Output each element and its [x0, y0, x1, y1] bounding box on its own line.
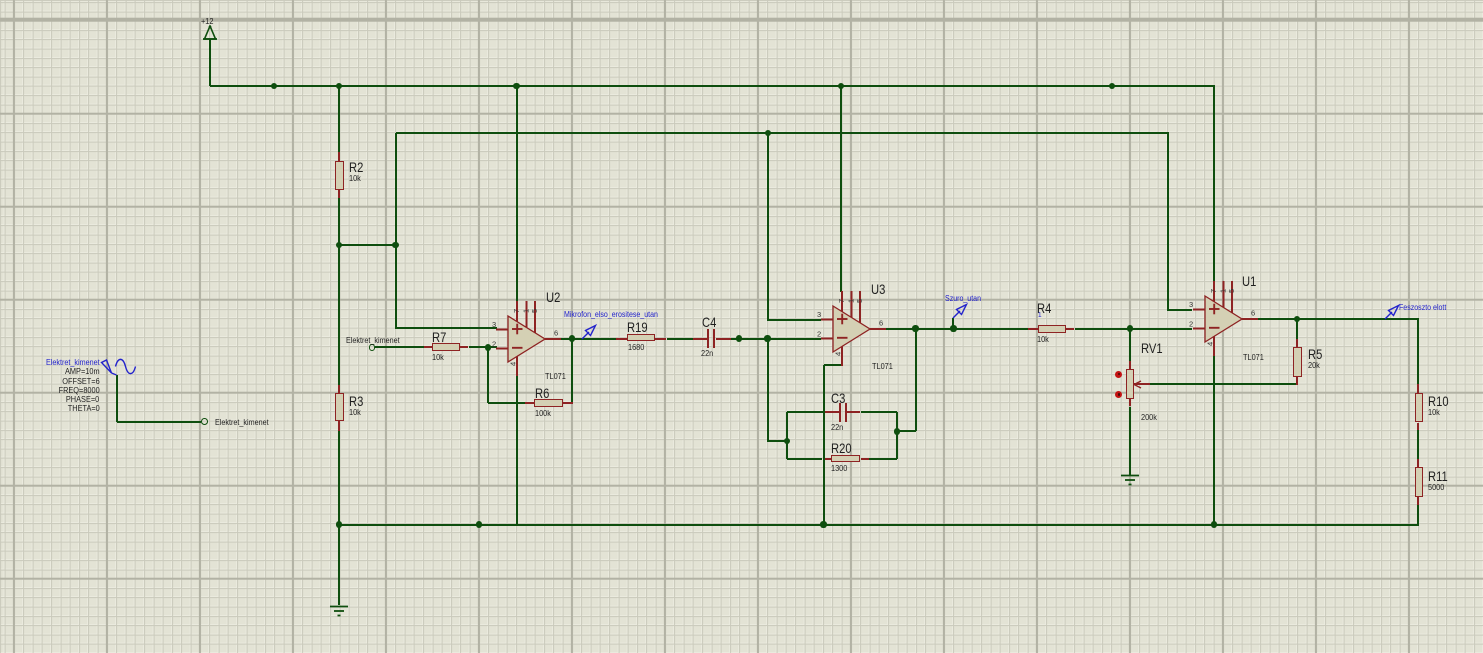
svg-text:3: 3	[492, 320, 496, 329]
svg-text:4: 4	[508, 361, 517, 365]
svg-text:7: 7	[1209, 289, 1218, 293]
svg-text:5: 5	[1227, 289, 1236, 293]
svg-text:3: 3	[1189, 300, 1193, 309]
svg-text:6: 6	[879, 318, 883, 327]
svg-text:2: 2	[817, 329, 821, 338]
svg-text:7: 7	[837, 298, 846, 302]
svg-text:5: 5	[530, 308, 539, 312]
svg-text:2: 2	[492, 339, 496, 348]
svg-text:6: 6	[554, 328, 558, 337]
svg-text:3: 3	[817, 310, 821, 319]
svg-text:4: 4	[1205, 342, 1214, 346]
svg-text:6: 6	[1251, 308, 1255, 317]
svg-text:4: 4	[833, 351, 842, 355]
svg-text:5: 5	[855, 298, 864, 302]
svg-text:7: 7	[512, 308, 521, 312]
svg-text:2: 2	[1189, 319, 1193, 328]
